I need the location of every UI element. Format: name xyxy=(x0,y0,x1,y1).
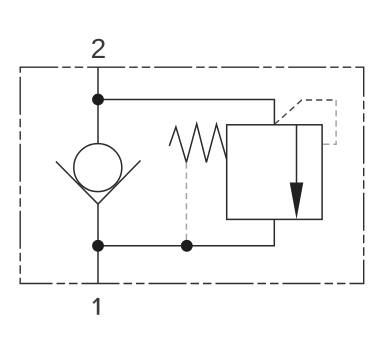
svg-text:2: 2 xyxy=(91,33,107,64)
